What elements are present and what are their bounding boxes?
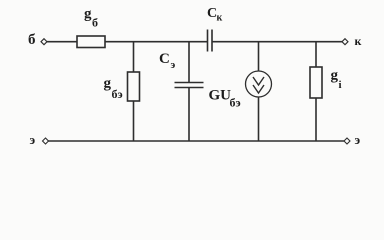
svg-text:к: к — [355, 34, 362, 48]
svg-text:э: э — [355, 132, 361, 147]
current source GUбэ circle — [246, 71, 272, 97]
resistor R gбэ — [128, 72, 140, 101]
terminal к node (diamond) — [342, 39, 348, 45]
wire branch gбэ top — [133, 42, 135, 72]
wire base terminal to resistor gб — [47, 41, 77, 43]
wire branch gi top — [315, 42, 317, 67]
svg-text:g: g — [84, 6, 92, 22]
terminal э right node (diamond) — [344, 138, 350, 144]
wire branch gбэ bottom — [133, 101, 135, 141]
svg-text:бэ: бэ — [230, 96, 241, 110]
wire branch Cэ top — [188, 42, 190, 83]
bottom emitter wire — [48, 140, 344, 142]
svg-text:к: к — [217, 13, 223, 24]
current source arrow chevron 1 — [253, 77, 264, 85]
terminal б node (diamond) — [41, 39, 47, 45]
svg-text:б: б — [28, 32, 36, 48]
svg-text:э: э — [171, 59, 176, 71]
wire branch current source bottom — [258, 97, 260, 141]
terminal э left node (diamond) — [43, 138, 49, 144]
svg-text:б: б — [92, 16, 98, 30]
wire Cк right plate to collector terminal — [212, 41, 342, 43]
svg-text:g: g — [331, 68, 339, 84]
wire branch Cэ bottom — [188, 88, 190, 142]
current source arrow chevron 2 — [253, 85, 264, 93]
wire resistor to Cк left plate — [105, 41, 208, 43]
wire branch gi bottom — [315, 98, 317, 141]
svg-text:бэ: бэ — [112, 87, 123, 101]
svg-text:g: g — [104, 76, 112, 92]
wire branch current source top — [258, 42, 260, 71]
svg-text:i: i — [339, 79, 342, 91]
svg-text:C: C — [159, 51, 170, 67]
capacitor Cэ plates — [175, 82, 204, 84]
capacitor Cк plates — [207, 30, 209, 52]
resistor R gб — [77, 36, 105, 48]
svg-text:GU: GU — [209, 88, 232, 104]
svg-text:э: э — [30, 132, 36, 147]
resistor R gi — [310, 67, 322, 98]
